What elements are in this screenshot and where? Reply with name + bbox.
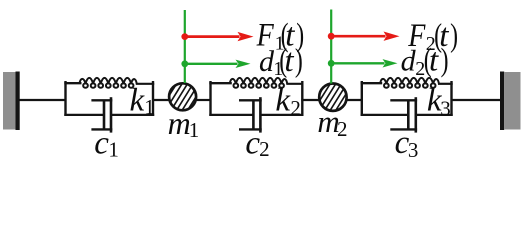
bracket left of spring-damper 1: [64, 81, 66, 116]
reference line above mass m2: [330, 10, 332, 84]
label m2: [317, 104, 347, 141]
svg-text:t: t: [429, 43, 439, 79]
wire bracket to right wall: [451, 99, 501, 101]
svg-text:1: 1: [108, 138, 119, 162]
label c1: [94, 126, 119, 162]
displacement arrow d2: [328, 59, 398, 67]
svg-text:): ): [441, 42, 449, 79]
svg-text:3: 3: [440, 97, 451, 121]
spring k1: [64, 78, 154, 88]
wire wall to k1/c1 bracket: [20, 99, 67, 101]
label d1(t): [259, 42, 303, 80]
svg-text:2: 2: [337, 117, 348, 141]
label d2(t): [401, 42, 449, 80]
force arrow F2: [328, 32, 400, 41]
right wall: [500, 72, 521, 131]
svg-text:1: 1: [189, 118, 200, 142]
damper c2: [209, 97, 303, 132]
svg-text:d: d: [401, 45, 417, 78]
wire mass m2 to k3/c3 bracket: [346, 99, 363, 101]
bracket left of spring-damper 3: [361, 81, 363, 116]
displacement arrow d1: [181, 60, 250, 68]
wire mass m1 to k2/c2 bracket: [196, 99, 212, 101]
bracket left of spring-damper 2: [209, 81, 211, 116]
label k2: [275, 83, 301, 120]
bracket right of spring-damper 2: [301, 81, 303, 116]
svg-text:2: 2: [259, 137, 270, 161]
force arrow F1: [181, 32, 253, 41]
spring k3: [361, 78, 453, 88]
damper c1: [64, 97, 154, 132]
label m1: [168, 105, 200, 142]
svg-text:m: m: [168, 105, 191, 141]
spring k2: [209, 78, 303, 88]
label c3: [395, 125, 419, 162]
reference line above mass m1: [184, 10, 186, 83]
label c2: [245, 125, 269, 161]
svg-text:1: 1: [144, 95, 155, 119]
label F1(t): [256, 16, 305, 54]
bracket right of spring-damper 3: [450, 81, 452, 116]
label F2(t): [407, 17, 458, 55]
mass m1: [169, 83, 196, 110]
svg-text:k: k: [130, 83, 146, 119]
svg-text:2: 2: [290, 96, 301, 120]
svg-text:): ): [450, 17, 458, 54]
label k3: [427, 83, 451, 121]
svg-text:3: 3: [408, 138, 419, 162]
wire bracket to mass m1: [152, 99, 170, 101]
svg-text:): ): [295, 42, 303, 79]
mass m2: [319, 84, 346, 111]
label k1: [130, 83, 155, 120]
left wall: [3, 72, 20, 131]
svg-text:k: k: [275, 83, 291, 119]
damper c3: [361, 97, 453, 132]
svg-text:t: t: [284, 43, 294, 79]
wire bracket to mass m2: [301, 99, 319, 101]
bracket right of spring-damper 1: [152, 81, 154, 116]
svg-text:c: c: [94, 126, 109, 162]
